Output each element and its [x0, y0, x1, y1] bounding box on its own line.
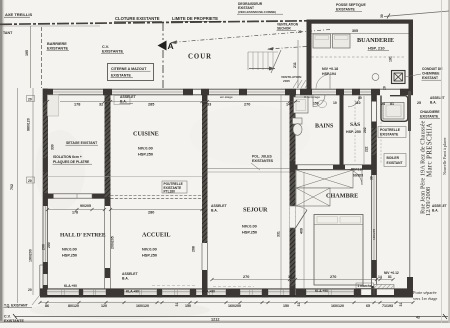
- svg-text:T.Q. EXISTANT: T.Q. EXISTANT: [4, 304, 29, 308]
- door arc into bains: [313, 95, 325, 107]
- svg-text:81: 81: [390, 102, 394, 106]
- svg-text:wc.étage: wc.étage: [219, 95, 233, 99]
- svg-text:HSP.250: HSP.250: [138, 152, 153, 157]
- svg-text:EXISTANTE: EXISTANTE: [111, 74, 132, 78]
- top dim row: [60, 101, 300, 103]
- svg-text:20: 20: [28, 288, 32, 292]
- left wall notch line: [39, 265, 41, 296]
- svg-text:CITERNE A MAZOUT: CITERNE A MAZOUT: [111, 67, 147, 71]
- svg-text:ASSELET: ASSELET: [432, 204, 447, 208]
- top dim row ticks: [46, 100, 49, 103]
- sas pipe dashes: [354, 100, 356, 163]
- svg-text:191: 191: [389, 56, 393, 62]
- buanderie dashed service line: [312, 56, 406, 58]
- right main wall segments: [371, 95, 373, 296]
- exterior stair treads: [248, 51, 278, 53]
- svg-text:KLA.+90: KLA.+90: [315, 289, 328, 293]
- top main wall inner line: [43, 94, 376, 96]
- bains shower/sink unit: [294, 97, 309, 113]
- sejour/chambre dim row y279: [212, 279, 393, 281]
- svg-text:71/193: 71/193: [382, 304, 393, 308]
- right wall window chambre: [372, 175, 376, 260]
- dryer: [333, 34, 351, 48]
- svg-text:270: 270: [244, 103, 250, 107]
- entrance step bottom right: [374, 285, 394, 289]
- svg-text:CHAMBRE: CHAMBRE: [326, 193, 358, 200]
- svg-text:EXISTANTES: EXISTANTES: [252, 159, 274, 163]
- svg-text:1 marche: 1 marche: [358, 284, 372, 288]
- svg-text:14: 14: [288, 275, 292, 279]
- svg-text:222: 222: [365, 146, 369, 152]
- svg-text:PTL180: PTL180: [164, 190, 176, 194]
- svg-text:20: 20: [28, 179, 32, 183]
- top main wall outer line: [43, 88, 413, 90]
- bottom wall window sills: [47, 290, 79, 295]
- bed: [314, 215, 363, 286]
- svg-text:30: 30: [370, 176, 374, 180]
- svg-text:150: 150: [313, 102, 319, 106]
- svg-text:C.V.: C.V.: [102, 45, 109, 49]
- door arc bains->chambre: [346, 169, 362, 185]
- svg-text:CONDUIT DE: CONDUIT DE: [422, 67, 443, 71]
- barriere dashed line: [41, 27, 43, 88]
- svg-text:B.A.: B.A.: [211, 209, 218, 213]
- bottom dim row: [40, 302, 413, 304]
- svg-text:EXISTANTE: EXISTANTE: [336, 8, 356, 12]
- svg-text:CUISINE: CUISINE: [133, 131, 159, 138]
- leader conduit: [405, 74, 421, 77]
- svg-text:86: 86: [45, 304, 49, 308]
- buanderie dim 305: [312, 33, 409, 35]
- svg-text:270: 270: [243, 275, 249, 279]
- svg-text:12/09/2008: 12/09/2008: [425, 187, 432, 216]
- door arc into sas: [348, 95, 360, 107]
- svg-text:vers 1er étage: vers 1er étage: [413, 296, 437, 301]
- bottom wall outer thick line: [40, 295, 413, 297]
- svg-text:32: 32: [99, 103, 103, 107]
- buanderie door arc: [316, 75, 330, 89]
- svg-text:EXISTANTE: EXISTANTE: [420, 115, 439, 119]
- svg-text:330: 330: [51, 144, 55, 150]
- svg-text:ACCUEIL: ACCUEIL: [142, 232, 171, 239]
- svg-text:EXISTANTE: EXISTANTE: [380, 133, 399, 137]
- svg-text:KLA.+90: KLA.+90: [126, 290, 139, 294]
- washbasin: [318, 100, 327, 107]
- svg-text:HSP. 250: HSP. 250: [346, 130, 361, 134]
- dashed sight line to stair: [268, 47, 307, 50]
- svg-text:CHEMINEE: CHEMINEE: [422, 72, 440, 76]
- accueil beam dashed (poutrelle): [111, 194, 203, 196]
- dim 195 left: [30, 26, 32, 88]
- scan right edge band: [448, 0, 450, 323]
- washer: [313, 34, 331, 48]
- svg-text:EXISTANT: EXISTANT: [422, 76, 438, 80]
- left wall window hall: [44, 206, 47, 262]
- citerne a mazout box: [108, 64, 154, 81]
- dashed sight line diagonal to section A: [171, 30, 330, 43]
- svg-text:305: 305: [352, 29, 358, 33]
- svg-text:31: 31: [297, 303, 301, 307]
- svg-text:211: 211: [293, 62, 297, 68]
- svg-text:B.A.: B.A.: [120, 100, 127, 104]
- svg-text:33: 33: [207, 103, 211, 107]
- svg-text:80: 80: [358, 96, 362, 100]
- hall dim line: [48, 209, 105, 211]
- svg-text:BARRIERE: BARRIERE: [47, 42, 67, 46]
- sejour beam lines: [208, 168, 290, 170]
- closet chambre: [296, 170, 353, 188]
- left outside vertical dims: [17, 88, 19, 303]
- svg-text:90/205: 90/205: [80, 204, 91, 208]
- interior wall column strip x105: [105, 95, 111, 197]
- svg-text:20: 20: [28, 97, 32, 101]
- svg-text:268: 268: [192, 246, 196, 252]
- svg-text:202: 202: [363, 127, 367, 133]
- svg-text:30: 30: [380, 14, 384, 18]
- svg-text:60/205: 60/205: [353, 174, 363, 178]
- svg-text:20: 20: [383, 86, 387, 90]
- svg-text:B.A.: B.A.: [430, 101, 436, 105]
- svg-text:HSP. 210: HSP. 210: [368, 46, 385, 51]
- scan shading blobs: [30, 301, 210, 319]
- sejour dashed floor marks: [213, 286, 254, 288]
- svg-text:200: 200: [42, 244, 46, 250]
- label POUTRELLE EXISTANTE annex: [378, 127, 406, 138]
- svg-text:Nouvelle Paroi à placer: Nouvelle Paroi à placer: [442, 137, 447, 175]
- svg-text:RBF216: RBF216: [351, 168, 363, 172]
- svg-text:B.A.: B.A.: [122, 277, 129, 281]
- hall/cuisine divider wall y196: [48, 193, 105, 195]
- svg-text:20: 20: [298, 30, 302, 34]
- svg-text:LIMITE DE PROPRIETE: LIMITE DE PROPRIETE: [172, 16, 218, 21]
- svg-text:270: 270: [330, 275, 336, 279]
- svg-text:ASSELET: ASSELET: [122, 272, 139, 276]
- label POUTRELLE PTL180: [162, 181, 187, 193]
- svg-text:NIV.0.00: NIV.0.00: [62, 247, 77, 252]
- svg-text:178: 178: [72, 211, 78, 215]
- svg-text:NIV.0.00: NIV.0.00: [142, 247, 157, 252]
- svg-text:150: 150: [283, 304, 289, 308]
- svg-text:81: 81: [388, 275, 392, 279]
- svg-text:ASSELET: ASSELET: [430, 96, 445, 100]
- dim 211 cour right: [297, 40, 299, 88]
- top wall piers: [43, 89, 53, 95]
- kitchen corner counter: [48, 95, 59, 116]
- svg-text:KLA.+90: KLA.+90: [202, 290, 215, 294]
- left wall window low: [44, 274, 47, 285]
- svg-text:30: 30: [107, 154, 111, 158]
- cuisine/sejour wall x204: [202, 95, 208, 177]
- bottom wall inner line: [40, 288, 413, 290]
- chaudiere annex outline: [381, 96, 408, 122]
- svg-text:SECHOR: SECHOR: [277, 27, 291, 31]
- conduit de cheminee box: [392, 71, 406, 84]
- bains bottom wall y167: [290, 164, 377, 166]
- stair direction arrow: [249, 68, 275, 70]
- svg-text:SEJOUR: SEJOUR: [243, 207, 268, 214]
- svg-text:120: 120: [101, 304, 107, 308]
- cuisine dashed appliance: [114, 96, 130, 105]
- svg-text:409: 409: [300, 228, 304, 234]
- svg-text:HSP.250: HSP.250: [142, 253, 157, 258]
- svg-text:EXISTANTE: EXISTANTE: [4, 319, 25, 323]
- svg-text:2005: 2005: [283, 79, 290, 83]
- svg-text:702: 702: [10, 184, 14, 190]
- svg-text:80/120: 80/120: [68, 304, 79, 308]
- property line (cloture) dash-dot: [0, 21, 307, 25]
- svg-text:331: 331: [277, 231, 281, 237]
- door opening sejour->chambre: [290, 206, 295, 228]
- svg-text:160/205: 160/205: [372, 229, 376, 240]
- total dim line 1212: [15, 316, 448, 318]
- svg-text:NIV.0.00: NIV.0.00: [138, 146, 153, 151]
- svg-text:190/200: 190/200: [29, 249, 33, 262]
- svg-text:31: 31: [399, 303, 403, 307]
- corner hatch marks: [293, 80, 298, 88]
- fosse septique dim line top right: [384, 11, 449, 17]
- wc: [293, 118, 303, 124]
- sas dim line vertical: [363, 96, 365, 164]
- label BOILER EXISTANT: [384, 154, 406, 167]
- svg-text:C-Sêtorage: C-Sêtorage: [304, 95, 320, 99]
- svg-text:ASSELET: ASSELET: [120, 95, 137, 99]
- cuisine beam line: [48, 176, 203, 178]
- svg-text:150: 150: [185, 304, 191, 308]
- sejour/chambre wall x292: [290, 95, 296, 295]
- svg-text:SAS: SAS: [350, 122, 360, 128]
- svg-text:BAINS: BAINS: [315, 124, 334, 130]
- svg-text:CHAUDIERE: CHAUDIERE: [420, 110, 440, 114]
- svg-text:10: 10: [333, 101, 337, 105]
- svg-text:AXE TREILLIS: AXE TREILLIS: [5, 12, 32, 17]
- stair break line: [271, 50, 281, 73]
- svg-text:HALL D' ENTREE: HALL D' ENTREE: [60, 233, 106, 239]
- svg-text:200: 200: [47, 242, 51, 248]
- svg-text:200/205: 200/205: [111, 236, 115, 249]
- svg-text:POUTRELLE: POUTRELLE: [380, 128, 401, 132]
- svg-text:160/120: 160/120: [136, 304, 149, 308]
- accueil dim line: [111, 209, 203, 211]
- bains/sas divider x341: [340, 95, 344, 166]
- svg-text:TANT: TANT: [3, 31, 13, 35]
- svg-text:POSSE SEPTIQUE: POSSE SEPTIQUE: [336, 3, 367, 7]
- svg-text:EXISTANT: EXISTANT: [387, 161, 403, 165]
- svg-text:SETAGE EXISTANT: SETAGE EXISTANT: [66, 141, 98, 145]
- svg-text:HSP.250: HSP.250: [242, 230, 257, 235]
- svg-text:NIV +0.18: NIV +0.18: [322, 67, 338, 71]
- buanderie top wall: [307, 20, 414, 24]
- buanderie right wall: [409, 20, 414, 92]
- svg-text:BOILER: BOILER: [387, 156, 400, 160]
- right page fold line: [441, 0, 443, 323]
- svg-text:65: 65: [366, 304, 370, 308]
- svg-text:A: A: [168, 41, 174, 51]
- svg-text:(VER.LESSIVEUSE.CUISINE): (VER.LESSIVEUSE.CUISINE): [238, 10, 276, 14]
- svg-text:EXISTANTE: EXISTANTE: [102, 50, 123, 54]
- scan left edge band: [0, 0, 3, 323]
- svg-text:NIV.0.00: NIV.0.00: [242, 224, 257, 229]
- svg-text:24: 24: [381, 102, 385, 106]
- svg-text:43: 43: [416, 316, 420, 320]
- svg-text:COUR: COUR: [188, 54, 212, 61]
- svg-text:KLA.+90: KLA.+90: [64, 284, 77, 288]
- top wall window sills: [53, 90, 103, 93]
- svg-text:Marc PRESCHIA: Marc PRESCHIA: [426, 123, 434, 177]
- svg-text:1212: 1212: [211, 318, 219, 322]
- svg-text:31: 31: [175, 303, 179, 307]
- left exterior wall segments: [42, 89, 44, 296]
- svg-text:B.A.: B.A.: [432, 209, 438, 213]
- section line below A: [162, 50, 164, 88]
- svg-text:178: 178: [74, 103, 80, 107]
- bottom wall piers: [40, 289, 47, 298]
- svg-text:280: 280: [148, 211, 154, 215]
- buanderie sink: [372, 74, 379, 81]
- svg-text:110: 110: [355, 101, 361, 105]
- chaudiere box: [383, 103, 404, 120]
- svg-text:HSP.250: HSP.250: [62, 253, 77, 258]
- annex right wall line: [409, 91, 411, 295]
- scan bottom edge band: [0, 321, 450, 323]
- svg-text:25: 25: [417, 101, 421, 105]
- svg-text:BUANDERIE: BUANDERIE: [357, 37, 394, 44]
- svg-text:Porte séparée: Porte séparée: [413, 290, 437, 295]
- svg-text:EXISTANTE: EXISTANTE: [47, 47, 68, 51]
- svg-text:PLAQUES DE PLATRE: PLAQUES DE PLATRE: [53, 160, 90, 164]
- buanderie left wall: [307, 20, 312, 90]
- svg-text:160/120: 160/120: [331, 304, 344, 308]
- svg-text:285: 285: [148, 103, 154, 107]
- svg-text:ISOLATION 6cm +: ISOLATION 6cm +: [53, 155, 82, 159]
- svg-text:195: 195: [25, 50, 29, 56]
- svg-text:POL. JULES: POL. JULES: [252, 155, 273, 159]
- section marker A triangle: [158, 41, 167, 51]
- svg-text:NIV +0.12: NIV +0.12: [384, 271, 399, 275]
- svg-text:ASSELET: ASSELET: [211, 204, 228, 208]
- svg-text:160/200: 160/200: [228, 304, 241, 308]
- svg-text:980/120: 980/120: [27, 118, 31, 131]
- svg-text:CLOTURE EXISTANTE: CLOTURE EXISTANTE: [115, 16, 160, 21]
- svg-text:HSP.194: HSP.194: [322, 72, 336, 76]
